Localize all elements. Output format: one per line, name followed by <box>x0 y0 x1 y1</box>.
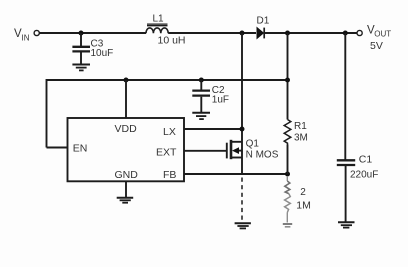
svg-text:L1: L1 <box>153 13 165 24</box>
label VIN <box>14 28 30 43</box>
wire L1 to D1 <box>168 32 256 34</box>
wire R1 to FB <box>287 145 289 175</box>
transistor Q1 <box>227 140 242 159</box>
node C3 junction <box>79 31 84 36</box>
capacitor C2 <box>192 91 210 112</box>
svg-text:N MOS: N MOS <box>246 150 279 161</box>
svg-text:EN: EN <box>73 143 88 155</box>
svg-text:10 uH: 10 uH <box>158 35 186 47</box>
node VDD rail to VOUT column <box>285 78 290 83</box>
svg-text:C1: C1 <box>359 153 373 165</box>
ground below C2 <box>192 113 210 119</box>
wire VDD rail <box>47 80 288 148</box>
svg-text:D1: D1 <box>257 16 270 27</box>
svg-text:FB: FB <box>163 169 176 181</box>
wire LX column vertical <box>241 33 243 175</box>
IC U1 body <box>68 118 185 181</box>
ground below GND pin <box>117 198 134 203</box>
svg-text:IN: IN <box>22 34 30 43</box>
node C1 junction top <box>343 31 348 36</box>
inductor L1 <box>146 24 168 33</box>
wire C2 lead <box>200 80 202 90</box>
wire LX pin <box>184 128 242 130</box>
svg-text:1M: 1M <box>296 200 311 212</box>
wire VIN to L1 <box>40 32 147 34</box>
ground below C1 <box>338 222 355 227</box>
label C2 value <box>212 85 229 105</box>
terminal VIN <box>34 30 39 35</box>
wire C3 lead <box>80 33 82 46</box>
node FB junction <box>285 172 290 177</box>
svg-text:220uF: 220uF <box>350 170 378 181</box>
svg-text:VDD: VDD <box>115 123 138 135</box>
node LX junction top <box>240 31 245 36</box>
capacitor C3 <box>72 47 90 64</box>
svg-text:10uF: 10uF <box>91 48 114 59</box>
wire FB pin <box>184 173 288 175</box>
wire EXT pin <box>184 150 227 152</box>
svg-text:EXT: EXT <box>156 147 177 159</box>
svg-text:Q1: Q1 <box>246 139 260 150</box>
label VOUT <box>367 25 391 39</box>
resistor R1 <box>284 120 291 145</box>
svg-text:1uF: 1uF <box>212 95 229 106</box>
wire EN stub <box>47 147 68 149</box>
svg-text:GND: GND <box>115 169 139 181</box>
svg-text:OUT: OUT <box>374 29 391 38</box>
wire VDD pin vertical <box>125 80 127 118</box>
wire GND pin vertical <box>125 181 127 197</box>
wire R1 column upper <box>287 33 289 120</box>
svg-text:5V: 5V <box>370 40 383 52</box>
wire Q1 source dashed to ground <box>241 178 243 223</box>
node C2 junction <box>199 78 204 83</box>
diode D1 <box>257 28 264 39</box>
label C3 value <box>91 39 114 60</box>
node VDD junction <box>124 78 129 83</box>
svg-text:3M: 3M <box>294 133 308 144</box>
svg-text:R1: R1 <box>294 121 307 132</box>
wire D1 to VOUT <box>264 32 357 34</box>
node R1 junction top <box>285 31 290 36</box>
svg-text:LX: LX <box>163 126 176 138</box>
node LX pin junction <box>240 127 245 132</box>
resistor R2 (faint) <box>285 176 291 223</box>
svg-text:2: 2 <box>300 187 306 198</box>
capacitor C1 <box>337 160 355 221</box>
terminal VOUT <box>357 30 362 35</box>
wire C1 column upper <box>344 33 346 160</box>
ground below C3 <box>72 65 90 71</box>
ground below R2 (faint) <box>283 224 292 227</box>
ground below Q1 source <box>235 223 251 228</box>
